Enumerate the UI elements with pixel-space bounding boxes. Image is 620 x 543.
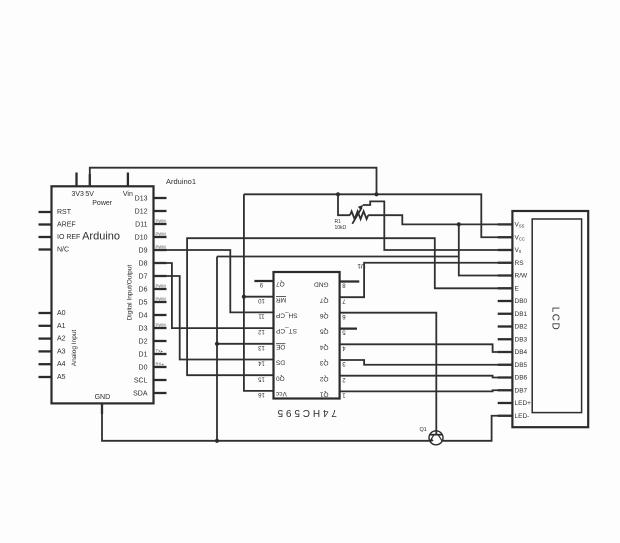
svg-text:A0: A0 <box>57 310 66 317</box>
wire 74HC595 Q0 pin 15 to LCD E <box>187 238 512 375</box>
svg-text:Vin: Vin <box>123 191 133 198</box>
LCD pin LED- stub <box>498 415 513 417</box>
svg-text:DB4: DB4 <box>515 349 528 356</box>
svg-text:Analog Input: Analog Input <box>71 330 78 367</box>
Arduino pin D6 PWM <box>139 284 167 294</box>
LCD screen inner rect <box>532 219 581 413</box>
junction ground at OE <box>215 342 219 346</box>
wire 5V down to 74HC595 VCC pin 16 <box>244 194 274 391</box>
svg-text:Digital Input/Output: Digital Input/Output <box>127 265 134 321</box>
Arduino pin A1 <box>39 323 66 330</box>
LCD pin Vo stub <box>498 249 513 251</box>
svg-text:D12: D12 <box>135 208 148 215</box>
svg-text:Q7: Q7 <box>276 280 285 287</box>
wire 74HC595 Q3 pin 3 to LCD DB5 <box>340 360 513 365</box>
svg-text:3V3: 3V3 <box>71 191 84 198</box>
wire ground: VSS junction down to LCD R/W <box>459 224 513 275</box>
potentiometer R1 right lead to LCD VSS <box>368 215 512 224</box>
svg-text:Q1: Q1 <box>420 427 427 433</box>
svg-text:D4: D4 <box>139 312 148 319</box>
svg-text:D3: D3 <box>139 325 148 332</box>
Arduino pin D3 PWM <box>139 323 167 333</box>
Arduino pin GND stub <box>101 403 103 414</box>
svg-text:R/W: R/W <box>515 273 529 280</box>
svg-text:D8: D8 <box>139 260 148 267</box>
svg-text:Q4: Q4 <box>319 343 328 350</box>
potentiometer R1 wiper arrow <box>352 205 363 224</box>
LCD pin VSS stub <box>498 223 513 225</box>
svg-text:SH_CP: SH_CP <box>276 312 298 319</box>
svg-text:5V: 5V <box>85 191 94 198</box>
Arduino pin A0 <box>39 310 66 317</box>
wire 74HC595 Q4 pin 4 to LCD DB4 <box>340 344 513 352</box>
svg-text:A5: A5 <box>57 374 66 381</box>
Arduino pin D13 <box>135 195 167 202</box>
Arduino pin D8 stub <box>154 262 167 264</box>
svg-text:ST_CP: ST_CP <box>276 327 297 334</box>
svg-text:A2: A2 <box>57 336 66 343</box>
junction ground bus <box>215 439 219 443</box>
svg-text:D7: D7 <box>139 273 148 280</box>
wire 74HC595 Q7' pin 7 to LCD RS <box>340 263 513 297</box>
LCD pin R/W stub <box>498 274 513 276</box>
svg-text:Q3: Q3 <box>319 359 328 366</box>
Arduino pin 5V stub <box>89 174 91 186</box>
svg-text:D2: D2 <box>139 338 148 345</box>
IC U1 74HC595 body <box>274 272 340 399</box>
LCD pin DB2 stub <box>498 324 528 331</box>
svg-text:Arduino: Arduino <box>82 230 120 242</box>
svg-text:D0: D0 <box>139 364 148 371</box>
wire D8 to 74HC595 ST_CP pin 12 <box>154 263 274 328</box>
Arduino pin AREF <box>39 222 76 229</box>
svg-text:Q2: Q2 <box>319 375 328 382</box>
svg-text:GND: GND <box>95 394 111 401</box>
LCD pin DB7 stub <box>498 389 513 391</box>
wire transistor collector to LCD LED- <box>442 416 512 441</box>
LCD pin DB4 stub <box>498 351 513 353</box>
Arduino pin 3V3 stub <box>71 173 84 199</box>
Arduino pin SCL <box>134 377 167 384</box>
Arduino pin D10 PWM <box>135 232 167 242</box>
svg-text:15: 15 <box>258 375 265 381</box>
LCD pin DB1 stub <box>498 311 528 318</box>
svg-text:PWM: PWM <box>156 297 167 302</box>
wire ground: OE pin 13 branch <box>217 343 274 345</box>
svg-text:Q7: Q7 <box>319 296 328 303</box>
svg-text:PWM: PWM <box>156 284 167 289</box>
Arduino pin A5 <box>39 374 66 381</box>
Arduino pin D7 stub <box>154 275 167 277</box>
svg-text:PWM: PWM <box>156 245 167 250</box>
LCD pin DB0 stub <box>498 298 528 305</box>
LCD pin RS stub <box>498 262 513 264</box>
svg-text:14: 14 <box>258 360 265 366</box>
Arduino pin N/C <box>39 247 70 254</box>
svg-text:Q5: Q5 <box>319 328 328 335</box>
wire 74HC595 Q1 pin 1 to LCD DB7 <box>340 390 513 391</box>
Arduino pin D9 stub <box>154 249 167 251</box>
svg-text:LCD: LCD <box>550 307 561 332</box>
svg-text:GND: GND <box>314 281 329 288</box>
wire ground vertical <box>216 257 218 441</box>
svg-text:16: 16 <box>258 391 265 397</box>
LCD module body <box>512 211 588 427</box>
Arduino pin D5 PWM <box>139 297 167 307</box>
svg-text:PWM: PWM <box>156 323 167 328</box>
svg-text:PWM: PWM <box>156 232 167 237</box>
svg-text:D11: D11 <box>135 221 147 228</box>
74HC595 pin 13 label OE with overline <box>275 343 285 350</box>
Arduino module body <box>52 186 154 403</box>
svg-text:PWM: PWM <box>156 219 167 224</box>
potentiometer R1 left lead <box>338 194 350 215</box>
svg-text:Q1: Q1 <box>319 391 328 398</box>
Arduino pin D0 RX <box>139 362 167 372</box>
svg-text:12: 12 <box>258 328 265 334</box>
svg-text:13: 13 <box>258 344 265 350</box>
svg-text:11: 11 <box>258 313 265 319</box>
svg-text:10: 10 <box>258 297 265 303</box>
svg-text:Q0: Q0 <box>276 374 285 381</box>
Arduino pin D4 <box>139 312 167 319</box>
svg-text:SDA: SDA <box>133 390 148 397</box>
Arduino pin D11 PWM <box>135 219 166 229</box>
svg-text:D9: D9 <box>139 247 148 254</box>
Arduino pin RST <box>39 209 72 216</box>
Arduino pin A2 <box>39 336 66 343</box>
wire 74HC595 Q2 pin 2 to LCD DB6 <box>340 376 513 378</box>
junction 5V at pot left <box>336 192 340 196</box>
svg-text:Power: Power <box>92 200 113 207</box>
svg-text:Q6: Q6 <box>319 312 328 319</box>
svg-text:A4: A4 <box>57 361 66 368</box>
junction 5V feed <box>374 192 378 196</box>
svg-text:D5: D5 <box>139 299 148 306</box>
svg-text:AREF: AREF <box>57 222 76 229</box>
svg-text:DB6: DB6 <box>515 375 528 382</box>
LCD pin DB3 stub <box>498 336 528 343</box>
svg-text:DS: DS <box>275 359 285 366</box>
svg-text:DB2: DB2 <box>515 324 528 331</box>
svg-text:D1: D1 <box>139 351 148 358</box>
svg-text:V0: V0 <box>515 247 522 254</box>
Arduino pin D1 TX <box>139 349 167 359</box>
74HC595 pin 8 GND stub <box>340 282 360 288</box>
svg-text:74HC595: 74HC595 <box>275 407 337 418</box>
svg-text:RS: RS <box>515 260 525 267</box>
svg-text:D10: D10 <box>135 234 148 241</box>
svg-text:SCL: SCL <box>134 377 148 384</box>
74HC595 pin 9 Q7 stub <box>254 281 273 287</box>
svg-text:VCC: VCC <box>515 234 525 241</box>
wire 74HC595 MR pin 10 to 5V vertical <box>244 296 274 298</box>
LCD pin VCC stub <box>498 236 513 238</box>
Arduino pin D9 PWM <box>139 245 167 255</box>
svg-text:RST: RST <box>57 209 72 216</box>
svg-text:LED-: LED- <box>515 413 530 420</box>
wire D7 to 74HC595 DS pin 14 <box>154 276 274 360</box>
svg-text:N/C: N/C <box>57 247 69 254</box>
svg-text:10kΩ: 10kΩ <box>335 225 347 231</box>
svg-text:E: E <box>515 285 520 292</box>
wire 5V rail horizontal to LCD VCC <box>244 194 513 237</box>
LCD pin LED+ stub <box>498 400 531 407</box>
potentiometer R1 wiper wire to LCD Vo <box>363 201 513 250</box>
Arduino pin IO REF <box>39 234 81 241</box>
wire ground top run to VSS vertical <box>217 256 459 258</box>
svg-text:A1: A1 <box>57 323 66 330</box>
svg-text:Arduino1: Arduino1 <box>166 177 196 186</box>
svg-text:RX◂: RX◂ <box>156 362 164 367</box>
LCD pin E stub <box>498 287 513 289</box>
wire GND bus from Arduino GND to transistor <box>102 403 429 440</box>
svg-text:D13: D13 <box>135 195 148 202</box>
svg-text:A3: A3 <box>57 348 66 355</box>
wire 74HC595 Q6 pin 6 to transistor base <box>340 313 437 435</box>
svg-text:D6: D6 <box>139 286 148 293</box>
svg-text:Vcc: Vcc <box>275 390 287 397</box>
svg-text:DB1: DB1 <box>515 311 528 318</box>
svg-text:DB3: DB3 <box>515 336 528 343</box>
74HC595 pin 10 label MR with overline <box>276 296 286 303</box>
potentiometer R1 zigzag body <box>350 211 368 219</box>
Arduino pin D12 <box>135 208 167 215</box>
Arduino pin Vin stub <box>123 173 133 199</box>
Arduino pin D2 <box>139 338 167 345</box>
junction MR/VCC <box>242 295 246 299</box>
Arduino pin SDA <box>133 390 166 397</box>
junction ground at VSS line <box>457 222 461 226</box>
LCD pin DB6 stub <box>498 376 513 378</box>
wire 5V rail: Arduino 5V up and across to junction <box>90 168 377 195</box>
74HC595 pin 5 Q5 stub <box>340 329 357 335</box>
transistor Q1 <box>429 431 443 445</box>
svg-text:DB5: DB5 <box>515 362 528 369</box>
svg-text:DB7: DB7 <box>515 387 528 394</box>
svg-text:IO REF: IO REF <box>57 234 80 241</box>
svg-text:VSS: VSS <box>515 222 525 229</box>
svg-text:LED+: LED+ <box>515 400 532 407</box>
svg-text:DB0: DB0 <box>515 298 528 305</box>
svg-text:TX▸: TX▸ <box>156 349 163 354</box>
Arduino pin A3 <box>39 348 66 355</box>
Arduino pin A4 <box>39 361 66 368</box>
wire D9 to 74HC595 SH_CP pin 11 <box>154 250 274 312</box>
LCD pin DB5 stub <box>498 364 513 366</box>
